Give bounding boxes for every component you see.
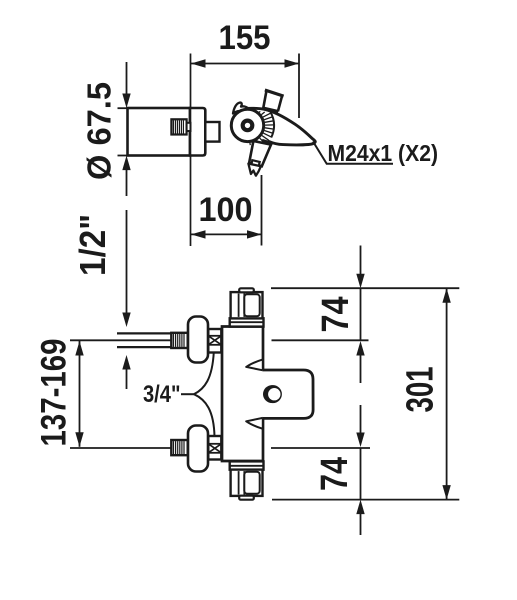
- top knob: [231, 292, 263, 318]
- mixer body front fill: [222, 327, 263, 462]
- top union nut cross: [208, 336, 221, 345]
- temp safety button knurled: [171, 119, 186, 134]
- lower connector notch: [251, 160, 259, 166]
- dim 155 line: [191, 63, 299, 65]
- dim 301 line: [446, 288, 448, 499]
- svg-text:74: 74: [314, 457, 356, 491]
- top union nut block: [208, 329, 221, 353]
- extension line y500: [272, 499, 459, 501]
- svg-text:Ø 67.5: Ø 67.5: [81, 82, 118, 180]
- dim Ø67.5 extension overshoot bottom: [118, 155, 129, 157]
- top knob cap: [239, 288, 254, 292]
- spout fill: [246, 108, 315, 145]
- bottom knob face: [244, 472, 259, 494]
- dim line x360 seg3: [356, 341, 364, 356]
- leader 3/4" upper branch: [194, 352, 214, 394]
- dim 1/2" arrow line lower: [122, 355, 130, 370]
- bottom cartridge flange: [230, 461, 264, 469]
- upper connector tube fill: [263, 91, 282, 112]
- knurled nut fan hatch: [258, 111, 261, 112]
- wall bracket plate fill: [263, 370, 314, 418]
- top inlet pipe: [117, 332, 172, 334]
- extension line y448: [271, 447, 370, 449]
- bracket screw hole outer: [263, 385, 281, 403]
- leader 3/4" stem: [181, 393, 194, 395]
- svg-text:137-169: 137-169: [35, 339, 74, 447]
- top inlet centerline: [70, 339, 172, 341]
- bottom union nut block: [208, 436, 221, 460]
- extension line y288: [271, 287, 459, 289]
- dim line x360 seg5: [360, 448, 362, 500]
- bottom knob cap: [239, 496, 254, 500]
- upper connector tube: [263, 91, 282, 112]
- svg-text:1/2": 1/2": [72, 214, 113, 276]
- mixer body front outline: [222, 327, 263, 462]
- bracket screw hole inner: [268, 388, 280, 400]
- dim line x360 seg1: [360, 246, 362, 276]
- wall bracket wing bottom: [246, 418, 263, 429]
- knurled nut outer arc: [271, 112, 275, 137]
- leader 3/4" lower branch: [194, 394, 215, 437]
- dim 100 extension line right: [261, 175, 263, 246]
- top union escutcheon disc: [188, 317, 208, 363]
- svg-text:100: 100: [199, 191, 253, 229]
- bottom inlet centerline: [70, 447, 172, 449]
- lower connector tip break: [248, 164, 261, 176]
- bottom knob ridges: [238, 471, 240, 494]
- svg-text:3/4": 3/4": [143, 381, 181, 408]
- temp safety button tab: [187, 123, 191, 131]
- wall bracket wing top: [246, 359, 263, 370]
- upper connector base band: [263, 108, 278, 112]
- dim line x360 seg4: [360, 405, 362, 434]
- dim 137-169 line: [79, 341, 81, 447]
- extension line y340: [272, 339, 369, 341]
- top knob face: [244, 294, 259, 316]
- leader M24x1: [313, 142, 393, 164]
- upper connector cap edge: [265, 90, 284, 96]
- mixer body cylinder: [128, 108, 191, 156]
- dim Ø67.5 arrow line top: [126, 62, 128, 95]
- mixer body end section: [190, 108, 205, 156]
- lower connector tube: [249, 141, 271, 166]
- lever nub on joint: [233, 103, 249, 114]
- dim line x360 seg6: [356, 500, 364, 514]
- top cartridge flange: [230, 318, 264, 326]
- svg-text:301: 301: [400, 367, 442, 413]
- joint circle: [231, 109, 263, 141]
- svg-text:155: 155: [219, 19, 271, 57]
- joint center hole: [243, 121, 253, 131]
- bottom knob: [231, 470, 263, 496]
- bottom union escutcheon disc: [188, 426, 208, 472]
- bottom union nut cross: [208, 444, 221, 453]
- top union threaded nipple: [171, 333, 187, 348]
- svg-text:74: 74: [315, 297, 357, 333]
- spout outline: [246, 108, 315, 145]
- dim line x360 seg2: [360, 288, 362, 340]
- dim 155 extension line right: [298, 54, 300, 119]
- dim Ø67.5 arrow line bottom: [122, 156, 130, 171]
- wall bracket plate outline: [263, 370, 314, 418]
- dim Ø67.5 extension overshoot top: [118, 107, 129, 109]
- dim 100 line: [191, 233, 262, 235]
- svg-text:M24x1 (X2): M24x1 (X2): [328, 140, 439, 166]
- bottom union threaded nipple: [171, 440, 187, 455]
- shared extension line left (155/100): [190, 54, 192, 247]
- neck between body and joint: [205, 122, 219, 142]
- top knob ridges: [238, 294, 240, 317]
- spout bottom edge over connector: [262, 140, 273, 143]
- dim 1/2" arrow line upper: [126, 210, 128, 314]
